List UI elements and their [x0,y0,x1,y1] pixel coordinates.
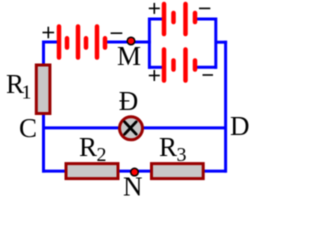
svg-text:3: 3 [177,144,187,166]
svg-text:1: 1 [22,82,32,104]
svg-text:M: M [117,41,141,71]
svg-text:2: 2 [97,144,107,166]
svg-text:R: R [79,132,97,162]
svg-text:Đ: Đ [119,86,139,116]
svg-text:D: D [230,111,250,141]
svg-text:N: N [123,172,143,199]
svg-text:C: C [19,113,37,143]
svg-text:R: R [159,132,177,162]
